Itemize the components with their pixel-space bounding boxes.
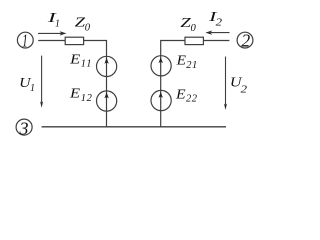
svg-text:3: 3 — [19, 119, 29, 139]
EMF source E12 — [97, 91, 117, 111]
svg-text:1: 1 — [55, 18, 60, 29]
EMF source E11 — [97, 56, 117, 76]
svg-text:E: E — [176, 53, 187, 68]
resistor Z0 (left) — [65, 37, 83, 44]
svg-text:12: 12 — [81, 93, 93, 104]
terminal node 1 — [17, 31, 33, 51]
label E22 — [175, 87, 198, 104]
wire: top-left from node 1 to left branch corner, down to E11 — [38, 41, 106, 127]
svg-text:11: 11 — [81, 58, 93, 69]
label U2 — [230, 76, 248, 96]
svg-text:22: 22 — [186, 94, 198, 105]
svg-text:1: 1 — [22, 31, 28, 51]
resistor Z0 (right) — [185, 37, 203, 44]
svg-text:Z: Z — [180, 16, 191, 31]
svg-text:E: E — [69, 87, 81, 102]
label I2 — [208, 10, 223, 29]
label E21 — [176, 53, 198, 71]
current arrow I1 — [38, 31, 66, 35]
svg-text:E: E — [175, 87, 186, 102]
terminal node 2 — [237, 30, 253, 50]
svg-text:2: 2 — [216, 16, 223, 28]
wire: top-right from right branch corner to node 2, down to E21 — [161, 41, 230, 127]
svg-text:2: 2 — [241, 30, 250, 50]
svg-text:E: E — [69, 53, 81, 68]
EMF source E22 — [151, 90, 171, 110]
EMF source E21 — [151, 56, 171, 76]
label Z0 (left) — [75, 16, 91, 34]
current arrow I2 — [205, 31, 229, 35]
wire: bottom rail from node 3 — [42, 126, 226, 128]
svg-text:0: 0 — [85, 23, 91, 34]
svg-text:1: 1 — [30, 83, 35, 94]
svg-text:0: 0 — [191, 23, 197, 34]
label U1 — [19, 76, 35, 94]
svg-text:Z: Z — [75, 16, 86, 31]
terminal node 3 — [16, 119, 32, 139]
label E12 — [69, 87, 93, 104]
svg-text:2: 2 — [241, 83, 248, 95]
voltage arrow U2 — [224, 57, 227, 111]
label E11 — [69, 53, 93, 70]
svg-text:21: 21 — [186, 60, 198, 71]
label I1 — [46, 11, 60, 30]
label Z0 (right) — [180, 16, 196, 34]
voltage arrow U1 — [40, 56, 43, 108]
